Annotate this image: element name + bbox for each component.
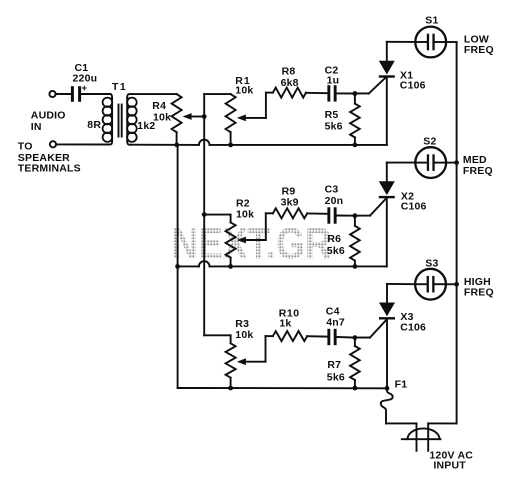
wire X3 cathode to rail3 xyxy=(386,320,388,389)
label R7 value xyxy=(327,359,345,383)
svg-text:C106: C106 xyxy=(401,201,427,213)
transformer T1 primary winding xyxy=(103,94,113,145)
svg-text:6k8: 6k8 xyxy=(281,77,299,89)
junction R5 bottom rail1 xyxy=(353,143,358,148)
wire terminal to C1 xyxy=(56,93,71,95)
junction bus to R2 xyxy=(202,212,207,217)
junction S2 right rail xyxy=(454,160,459,165)
svg-text:F1: F1 xyxy=(395,378,408,390)
potentiometer R1 xyxy=(226,94,236,145)
label HIGH FREQ xyxy=(464,276,494,299)
thyristor X3 xyxy=(379,303,395,320)
wire X3 to lamp S3 xyxy=(387,283,415,285)
plug body dome xyxy=(408,428,440,439)
svg-text:10k: 10k xyxy=(153,111,171,123)
terminal audio in top xyxy=(49,91,55,97)
capacitor C2 xyxy=(327,85,336,101)
wire C4 to junction xyxy=(337,336,355,339)
svg-text:AUDIO: AUDIO xyxy=(31,109,66,121)
svg-text:10k: 10k xyxy=(235,85,253,97)
label S1 xyxy=(425,15,438,27)
lamp S2 xyxy=(415,147,446,178)
wire R2 wiper up to R9 xyxy=(266,213,273,240)
wiper arrow R4 xyxy=(183,113,205,120)
plug base line xyxy=(402,438,441,440)
junction S3 right rail xyxy=(454,282,459,287)
label R2 value xyxy=(236,197,254,220)
wire X1 anode xyxy=(386,42,388,61)
junction C4 R7 gate node xyxy=(353,335,358,340)
wire right rail xyxy=(456,42,458,423)
plug prong left xyxy=(416,423,418,450)
svg-text:R4: R4 xyxy=(152,100,166,112)
capacitor C4 xyxy=(327,329,336,345)
svg-text:8R: 8R xyxy=(87,119,101,131)
label R1 value xyxy=(235,75,253,97)
label R9 value xyxy=(281,185,299,208)
resistor R5 xyxy=(350,94,360,145)
wire link rail1 to rail3 xyxy=(177,145,179,388)
wire bus to R2 top xyxy=(204,215,230,223)
junction R6 bottom rail2 xyxy=(353,264,358,269)
label S2 xyxy=(423,135,436,147)
svg-text:R7: R7 xyxy=(327,359,341,371)
svg-text:5k6: 5k6 xyxy=(327,245,345,257)
potentiometer R3 xyxy=(226,343,236,388)
wire S2 to right rail xyxy=(446,162,457,164)
svg-text:1k: 1k xyxy=(279,317,291,329)
svg-text:FREQ: FREQ xyxy=(464,287,494,299)
svg-text:20n: 20n xyxy=(325,195,344,207)
svg-text:TERMINALS: TERMINALS xyxy=(18,162,81,174)
junction C2 R5 gate node xyxy=(353,91,358,96)
wire C2 to junction xyxy=(337,92,355,94)
label R3 value xyxy=(235,318,253,341)
lamp S1 xyxy=(415,27,446,58)
thyristor X1 xyxy=(379,61,395,78)
wire X2 anode xyxy=(386,163,388,182)
svg-text:R6: R6 xyxy=(327,233,341,245)
svg-text:C106: C106 xyxy=(400,321,426,333)
junction R7 bottom rail3 xyxy=(353,386,358,391)
wiper arrow R2 xyxy=(237,237,266,244)
label S3 xyxy=(425,257,438,269)
wire hop rail2 over bus xyxy=(199,261,210,266)
resistor R8 xyxy=(273,88,306,98)
capacitor C1 xyxy=(71,86,81,102)
svg-text:S3: S3 xyxy=(425,257,438,269)
potentiometer R4 xyxy=(172,94,182,145)
wire gate X2 xyxy=(355,199,386,216)
resistor R10 xyxy=(273,331,307,341)
wire bus vertical xyxy=(203,94,205,335)
label R8 value xyxy=(281,66,299,89)
wire terminal to T1 primary bottom xyxy=(56,143,108,145)
wire R10 to C4 xyxy=(307,335,327,337)
terminal speaker bottom xyxy=(50,141,56,147)
wire S1 to right rail xyxy=(446,41,457,43)
svg-text:FREQ: FREQ xyxy=(464,44,494,56)
wire X2 cathode to rail2 xyxy=(386,198,388,266)
wire bus to R1 top xyxy=(204,93,230,95)
label TO SPEAKER TERMINALS xyxy=(18,140,81,174)
wiper arrow R1 xyxy=(237,115,266,122)
wire S3 to right rail xyxy=(446,283,457,285)
svg-text:T1: T1 xyxy=(112,81,127,93)
junction link rail2 xyxy=(175,264,180,269)
label AUDIO IN xyxy=(31,109,66,133)
svg-text:IN: IN xyxy=(31,121,42,133)
wire C1 to T1 primary xyxy=(82,93,109,95)
thyristor X2 xyxy=(379,181,395,198)
junction R2 bottom rail2 xyxy=(228,264,233,269)
junction R3 bottom rail3 xyxy=(228,386,233,391)
wire fuse to plug left prong xyxy=(386,422,417,424)
wire gate X3 xyxy=(355,320,386,338)
transformer T1 core xyxy=(119,105,122,137)
svg-text:5k6: 5k6 xyxy=(325,121,343,133)
svg-text:TO: TO xyxy=(18,140,33,152)
transformer T1 secondary winding xyxy=(127,94,137,145)
wire X2 to lamp S2 xyxy=(387,162,416,164)
wire C3 to junction xyxy=(337,215,355,217)
label T1 xyxy=(112,81,127,93)
watermark NEXT.GR xyxy=(172,220,332,269)
svg-text:R9: R9 xyxy=(282,185,296,197)
wire X3 anode xyxy=(386,284,388,303)
label C2 value xyxy=(325,64,340,86)
svg-text:FREQ: FREQ xyxy=(463,165,493,177)
svg-text:+: + xyxy=(82,83,88,94)
wire X1 to lamp S1 xyxy=(387,41,416,43)
svg-text:1u: 1u xyxy=(327,75,340,87)
wire hop rail1 over bus xyxy=(199,140,210,145)
resistor R9 xyxy=(273,208,307,218)
label R4 value xyxy=(152,100,171,124)
wire bus to R3 top xyxy=(204,335,230,343)
junction R4 bottom rail1 xyxy=(174,143,179,148)
junction F1 rail3 xyxy=(385,386,390,391)
svg-text:S2: S2 xyxy=(423,135,436,147)
lamp S3 xyxy=(415,269,446,300)
wire rail3 xyxy=(178,387,387,389)
label F1 xyxy=(395,378,408,390)
svg-text:S1: S1 xyxy=(425,15,438,27)
svg-text:C4: C4 xyxy=(326,305,340,317)
wire X1 cathode to rail1 xyxy=(386,78,388,145)
svg-text:3k9: 3k9 xyxy=(281,197,299,209)
wire gate X1 xyxy=(355,77,386,93)
wire R3 wiper up to R10 xyxy=(266,336,273,362)
svg-text:R8: R8 xyxy=(282,66,296,78)
fuse F1 xyxy=(381,388,393,423)
capacitor C3 xyxy=(327,207,336,223)
svg-text:10k: 10k xyxy=(235,329,253,341)
label R5 value xyxy=(325,109,343,133)
wire rail1 T1 to SCR X1 xyxy=(131,144,387,146)
label R6 value xyxy=(327,233,345,257)
label 120V AC INPUT xyxy=(429,450,473,472)
potentiometer R2 xyxy=(226,222,236,266)
label C3 value xyxy=(325,183,344,207)
svg-text:5k6: 5k6 xyxy=(327,371,345,383)
wire R1 wiper up to R8 xyxy=(266,93,273,118)
resistor R7 xyxy=(350,338,360,388)
label 1k2 xyxy=(137,120,155,132)
label X3 C106 xyxy=(400,311,426,334)
wire rail2 xyxy=(178,265,387,267)
svg-text:4n7: 4n7 xyxy=(326,317,345,329)
svg-text:10k: 10k xyxy=(236,208,254,220)
label C1 value xyxy=(73,62,98,94)
junction R4 wiper to bus xyxy=(202,114,207,119)
wiper arrow R3 xyxy=(237,358,266,365)
label LOW FREQ xyxy=(464,34,494,57)
label 8R xyxy=(87,119,101,131)
plug prong right xyxy=(427,423,429,450)
svg-text:NEXT.GR: NEXT.GR xyxy=(172,220,332,269)
junction R1 bottom rail1 xyxy=(228,143,233,148)
wire R8 to C2 xyxy=(306,92,327,94)
label X1 C106 xyxy=(400,69,426,91)
svg-text:R5: R5 xyxy=(325,109,339,121)
label X2 C106 xyxy=(401,190,427,212)
label C4 value xyxy=(326,305,345,328)
svg-text:INPUT: INPUT xyxy=(433,460,466,472)
label R10 value xyxy=(279,308,300,330)
junction C3 R6 gate node xyxy=(353,213,358,218)
wire T1 secondary top to R4 xyxy=(131,93,177,95)
wire R9 to C3 xyxy=(307,212,327,214)
label MED FREQ xyxy=(463,154,493,177)
svg-text:C106: C106 xyxy=(400,80,426,92)
resistor R6 xyxy=(350,216,360,267)
svg-text:C3: C3 xyxy=(325,183,339,195)
wire right rail to plug right prong xyxy=(428,422,456,424)
